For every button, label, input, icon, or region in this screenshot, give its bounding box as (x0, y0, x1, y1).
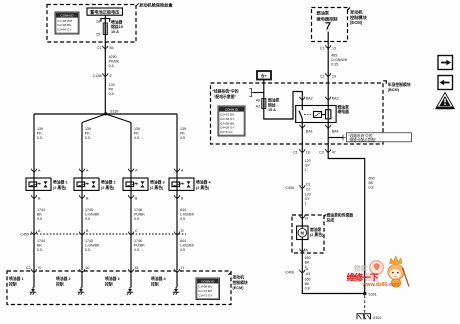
svg-text:PK: PK (180, 132, 185, 136)
injector 4 (169, 178, 194, 190)
underhood fuse block dashed box (47, 5, 136, 43)
svg-text:1745: 1745 (85, 208, 93, 212)
svg-text:D: D (181, 229, 184, 233)
svg-text:控制: 控制 (9, 281, 17, 286)
svg-text:“配电示意图”: “配电示意图” (214, 94, 237, 99)
svg-text:C459: C459 (20, 233, 29, 237)
svg-text:71: 71 (181, 266, 185, 270)
svg-text:CONN ID: CONN ID (60, 14, 74, 18)
svg-text:PU/BK: PU/BK (134, 213, 145, 217)
nav icon back arrow (438, 76, 453, 90)
svg-text:0.5: 0.5 (85, 136, 90, 140)
svg-text:喷油器 3: 喷油器 3 (150, 180, 165, 185)
ground distribution reference 搭铁分配示意图 (328, 137, 343, 139)
svg-text:B+: B+ (261, 74, 267, 79)
injector 2 (74, 178, 99, 190)
svg-text:熔丝15: 熔丝15 (111, 24, 123, 29)
svg-text:D-GN/WH: D-GN/WH (331, 58, 348, 62)
CONN ID table (fuse block) (55, 12, 79, 34)
svg-text:(2 黑色): (2 黑色) (196, 185, 210, 190)
wire from label to fuse (104, 15, 106, 18)
wire label 650 BK 0.8 (right) (369, 177, 375, 190)
connector pin A row (31, 169, 36, 174)
svg-text:喷油器 1: 喷油器 1 (9, 276, 24, 281)
svg-text:120: 120 (305, 193, 311, 197)
fuel pump motor M (297, 226, 308, 240)
ECM pins C2 70 / 60 / 46 / 71 (31, 269, 36, 274)
relay pin BA3 (326, 97, 331, 102)
svg-text:BA3: BA3 (332, 97, 339, 101)
svg-text:C3=64 GY: C3=64 GY (57, 28, 72, 32)
ECM label 发动机控制模块 (ECM) (229, 272, 232, 275)
svg-text:燃油泵: 燃油泵 (268, 98, 280, 103)
injector 3 (123, 178, 148, 190)
wire label 120 GY 1 (305, 193, 311, 206)
underhood fuse block label 发动机舱保险丝盒 (136, 4, 139, 7)
wire diagonals from S139 (82, 114, 131, 123)
svg-text:C2=48 BK: C2=48 BK (57, 23, 72, 27)
svg-text:PK: PK (109, 88, 114, 92)
svg-text:www.dz60.com: www.dz60.com (362, 282, 400, 288)
svg-text:C: C (135, 229, 138, 233)
relay pin BA1 (300, 125, 305, 130)
svg-text:C1=56 BU: C1=56 BU (198, 285, 212, 289)
svg-text:燃油泵: 燃油泵 (310, 227, 322, 232)
svg-text:1744: 1744 (37, 239, 45, 243)
svg-text:70: 70 (38, 266, 42, 270)
svg-text:喷油器 2: 喷油器 2 (101, 180, 116, 185)
svg-text:19: 19 (332, 75, 336, 79)
fuel pump relay box (296, 106, 336, 123)
wire label 650 BK 0.8 (305, 278, 311, 291)
svg-text:0.5: 0.5 (134, 217, 139, 221)
ground G304 (357, 314, 371, 320)
svg-text:0.5: 0.5 (85, 248, 90, 252)
relay switch (299, 106, 302, 123)
connector pin B row (31, 195, 36, 200)
connector C406 pins A/A3 (300, 270, 305, 275)
wire ECM to BCM (327, 32, 329, 106)
assembly label 燃油泵和传感器总成 (324, 215, 326, 217)
svg-text:C1=48 WH: C1=48 WH (57, 19, 72, 23)
svg-text:0.5: 0.5 (37, 248, 42, 252)
svg-text:控制: 控制 (151, 281, 159, 286)
svg-text:BK: BK (37, 244, 42, 248)
connector C1 pin 13 (326, 45, 331, 50)
svg-text:0.8: 0.8 (369, 186, 374, 190)
svg-text:0.5: 0.5 (180, 248, 185, 252)
svg-text:喷油器 1: 喷油器 1 (53, 180, 68, 185)
svg-text:PU/BK: PU/BK (134, 244, 145, 248)
svg-text:继电器控制: 继电器控制 (317, 15, 338, 22)
svg-text:BK: BK (37, 213, 42, 217)
svg-text:10 A: 10 A (111, 30, 119, 34)
nav icon forward arrow (438, 56, 453, 70)
svg-text:650: 650 (305, 278, 311, 282)
svg-text:发动机: 发动机 (232, 275, 245, 280)
svg-text:0.5: 0.5 (134, 136, 139, 140)
svg-text:1745: 1745 (85, 239, 93, 243)
svg-text:控制: 控制 (56, 281, 64, 286)
splice S301 (363, 292, 367, 296)
svg-text:熔丝: 熔丝 (268, 102, 276, 107)
svg-text:PK/BK: PK/BK (109, 60, 120, 64)
svg-text:A8: A8 (256, 99, 260, 103)
pin A (300, 249, 305, 254)
svg-text:控制模块: 控制模块 (233, 280, 248, 285)
svg-text:A2: A2 (256, 105, 260, 109)
svg-text:139: 139 (109, 83, 115, 87)
svg-text:L-GN/BK: L-GN/BK (85, 244, 100, 248)
BCM pin C3 47 (326, 149, 331, 154)
svg-text:L-GN/BK: L-GN/BK (85, 213, 100, 217)
svg-text:“线路系统”中的: “线路系统”中的 (212, 89, 239, 94)
svg-text:发动机舱保险丝盒: 发动机舱保险丝盒 (139, 2, 173, 9)
svg-text:G304: G304 (373, 316, 382, 320)
svg-text:465: 465 (331, 54, 337, 58)
svg-text:650: 650 (369, 177, 375, 181)
relay suppression element (314, 112, 322, 118)
wire labels below C459 (37, 239, 195, 252)
svg-text:C2=73 BK: C2=73 BK (198, 289, 213, 293)
BCM pin C1 18 (300, 149, 305, 154)
svg-text:13: 13 (332, 47, 336, 51)
svg-text:4290: 4290 (109, 55, 117, 59)
svg-text:0.5: 0.5 (109, 92, 114, 96)
fuel pump fuse 燃油泵熔丝 15A (262, 99, 266, 109)
svg-text:蓄电池正极电压: 蓄电池正极电压 (90, 8, 120, 15)
branch wire labels 139 PK 0.5 (x4) (37, 127, 186, 140)
splice bus wire (34, 113, 177, 115)
splice S139 (104, 112, 107, 115)
svg-text:C1: C1 (97, 46, 102, 50)
connector C158 pin E (103, 73, 108, 78)
ECM top dashed box (fuel pump relay control) (312, 8, 348, 42)
pin B (300, 215, 305, 220)
BCM label 车身控制模块 (BCM) (383, 81, 386, 84)
ECM internal driver symbols (33, 274, 35, 288)
svg-text:(2 黑色): (2 黑色) (101, 185, 115, 190)
svg-text:1: 1 (305, 202, 307, 206)
svg-text:C3: C3 (319, 151, 324, 155)
B+ box (257, 71, 271, 80)
fuel pump and sender assembly dashed box (292, 215, 324, 253)
svg-text:139: 139 (180, 127, 186, 131)
svg-text:喷油器 2: 喷油器 2 (56, 276, 71, 281)
svg-text:“搭铁分配示意图”: “搭铁分配示意图” (349, 137, 377, 142)
svg-text:0.5: 0.5 (109, 64, 114, 68)
svg-text:844: 844 (180, 239, 186, 243)
relay coil (326, 110, 331, 119)
svg-text:47: 47 (332, 151, 336, 155)
dashed wire to ground (364, 296, 366, 314)
svg-text:(ECM): (ECM) (350, 20, 363, 25)
injector 1 (26, 178, 51, 190)
svg-text:喷油器 3: 喷油器 3 (105, 276, 120, 281)
svg-text:CONN ID: CONN ID (225, 108, 239, 112)
svg-text:139: 139 (134, 127, 140, 131)
svg-text:C3=73 GY: C3=73 GY (198, 293, 213, 297)
svg-text:844: 844 (180, 208, 186, 212)
svg-text:650: 650 (305, 256, 311, 260)
svg-text:GY: GY (305, 164, 311, 168)
svg-text:GY: GY (305, 197, 311, 201)
svg-text:控制: 控制 (105, 281, 113, 286)
svg-text:1744: 1744 (37, 208, 45, 212)
svg-text:0.5: 0.5 (134, 248, 139, 252)
CONN ID table (BCM) (218, 106, 245, 136)
svg-text:燃油泵和传感器: 燃油泵和传感器 (327, 213, 354, 218)
svg-text:搜索: 搜索 (354, 264, 368, 273)
wire fuse to S139 (104, 35, 106, 114)
svg-text:C2: C2 (306, 188, 311, 192)
svg-text:C1: C1 (320, 47, 325, 51)
svg-text:(2 黑色): (2 黑色) (310, 232, 324, 237)
ECM internal labels 喷油器 N 控制 (9, 276, 166, 286)
svg-text:总成: 总成 (327, 218, 335, 223)
svg-text:A3: A3 (306, 272, 310, 276)
ECM label 发动机控制模块 (ECM) (348, 8, 351, 11)
svg-text:0.5: 0.5 (180, 136, 185, 140)
svg-text:C3: C3 (306, 183, 311, 187)
svg-text:C2: C2 (26, 266, 31, 270)
svg-text:燃油泵: 燃油泵 (338, 105, 350, 110)
CONN ID table (ECM) (196, 278, 220, 300)
connector C406 pins C3/C2 (300, 185, 305, 190)
caution triangle (436, 93, 454, 110)
svg-text:S139: S139 (110, 110, 118, 114)
BCM (body control module) dashed box (211, 83, 384, 144)
connector C1 pin 85 (103, 46, 108, 51)
svg-text:PK: PK (85, 132, 90, 136)
svg-text:C5=8 GY: C5=8 GY (220, 130, 233, 134)
svg-text:1: 1 (305, 168, 307, 172)
fuse 喷油器熔丝15 10A body (103, 23, 107, 35)
ECM (engine control module) dashed box bottom (7, 271, 231, 305)
svg-text:85: 85 (110, 46, 114, 50)
svg-text:0.35: 0.35 (331, 63, 338, 67)
wire BA4 down and right (328, 123, 365, 294)
fuse INJ 15 top staple (101, 19, 110, 22)
svg-text:(2 黑色): (2 黑色) (53, 185, 67, 190)
svg-text:0.5: 0.5 (85, 217, 90, 221)
svg-text:BK: BK (305, 282, 310, 286)
svg-text:120: 120 (305, 159, 311, 163)
wire labels below injectors (37, 208, 195, 221)
svg-text:(ECM): (ECM) (233, 286, 245, 290)
svg-text:C406: C406 (285, 186, 294, 190)
ECM driver symbol (325, 22, 330, 24)
svg-text:1746: 1746 (134, 239, 142, 243)
wire BA1 down (301, 123, 303, 217)
svg-text:(BCM): (BCM) (388, 88, 400, 92)
svg-text:18: 18 (306, 151, 310, 155)
svg-text:喷油器 4: 喷油器 4 (196, 180, 211, 185)
svg-text:BK: BK (305, 261, 310, 265)
svg-text:15 A: 15 A (268, 108, 276, 112)
svg-text:C406: C406 (285, 271, 294, 275)
wire label 650 BK 1 (305, 256, 311, 269)
svg-text:S301: S301 (368, 292, 376, 296)
injector branch wires (33, 114, 35, 270)
svg-text:C1: C1 (320, 75, 325, 79)
svg-text:C158: C158 (93, 74, 102, 78)
svg-text:CONN ID: CONN ID (201, 280, 215, 284)
svg-text:车身控制模块: 车身控制模块 (388, 82, 411, 87)
svg-text:C1: C1 (293, 151, 298, 155)
svg-text:60: 60 (86, 266, 90, 270)
svg-text:L-BU/BK: L-BU/BK (180, 213, 195, 217)
relay pin BA4 (326, 125, 331, 130)
wire B+ to fuse (263, 80, 265, 99)
svg-text:M: M (301, 230, 305, 235)
svg-text:喷油器 4: 喷油器 4 (151, 276, 166, 281)
svg-text:继电器: 继电器 (338, 109, 350, 114)
svg-text:139: 139 (37, 127, 43, 131)
svg-text:喷油器: 喷油器 (111, 19, 123, 24)
svg-text:(2 黑色): (2 黑色) (150, 185, 164, 190)
svg-text:0.5: 0.5 (180, 217, 185, 221)
inline connector C459 (30, 233, 186, 235)
svg-text:46: 46 (135, 266, 139, 270)
svg-text:25: 25 (96, 32, 100, 36)
svg-text:0.8: 0.8 (305, 287, 310, 291)
svg-text:L-BU/BK: L-BU/BK (180, 244, 195, 248)
svg-text:0.5: 0.5 (37, 136, 42, 140)
svg-text:0.5: 0.5 (37, 217, 42, 221)
watermark (347, 256, 410, 288)
svg-text:1746: 1746 (134, 208, 142, 212)
wire fuse to relay switch (264, 92, 303, 120)
svg-text:24: 24 (96, 20, 100, 24)
svg-text:PK: PK (134, 132, 139, 136)
relay pin BA2 (300, 97, 305, 102)
svg-text:PK: PK (37, 132, 42, 136)
svg-text:BA1: BA1 (306, 130, 313, 134)
svg-text:139: 139 (85, 127, 91, 131)
svg-text:BA4: BA4 (332, 130, 339, 134)
battery positive voltage label box 蓄电池正极电压 (87, 8, 123, 15)
connector C1 pin 19 (326, 73, 331, 78)
svg-text:BA2: BA2 (306, 97, 313, 101)
svg-text:BK: BK (369, 181, 374, 185)
wire label 120 GY 1 (305, 159, 311, 172)
